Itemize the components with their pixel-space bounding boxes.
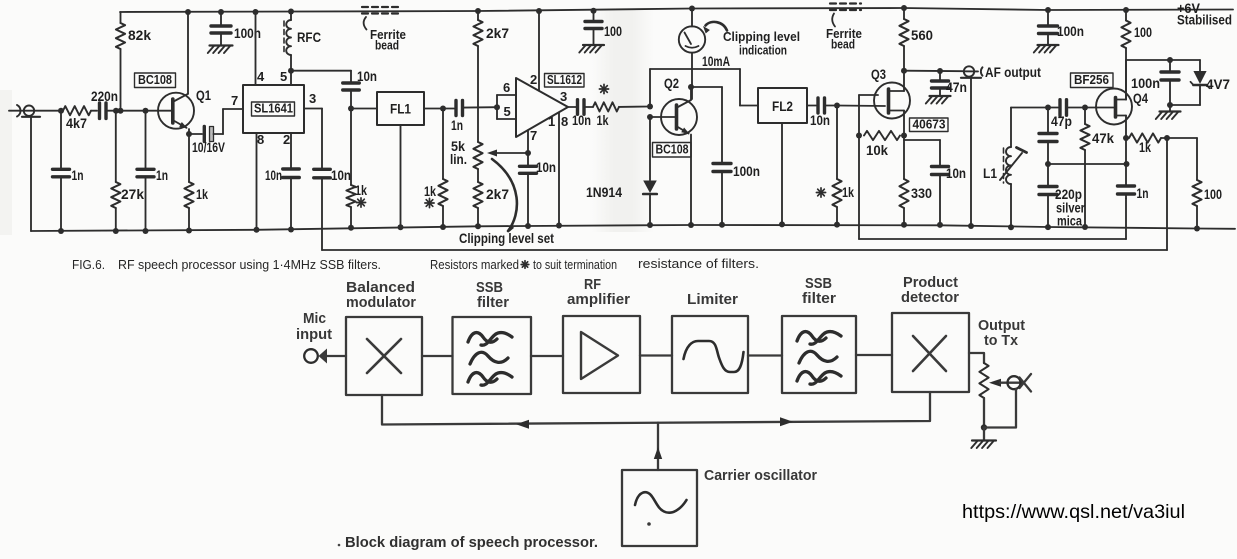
svg-text:47n: 47n bbox=[946, 80, 967, 95]
ground for 47n bbox=[926, 96, 951, 104]
svg-text:7: 7 bbox=[231, 93, 238, 108]
wire +6V top supply rail bbox=[120, 8, 1233, 12]
svg-text:100n: 100n bbox=[1131, 76, 1160, 91]
resistor 2k7 (clipping divider upper) bbox=[473, 8, 509, 142]
label BF256 for Q4 bbox=[1071, 73, 1114, 88]
svg-text:82k: 82k bbox=[128, 28, 151, 43]
svg-text:FL1: FL1 bbox=[390, 101, 411, 117]
resistor 1k (FL1 output termination, marked *) bbox=[424, 109, 448, 231]
svg-text:1k: 1k bbox=[1139, 140, 1151, 155]
wire ground bottom rail bbox=[31, 225, 1235, 231]
node FL1 input bbox=[348, 106, 377, 112]
svg-text:Limiter: Limiter bbox=[687, 292, 738, 308]
resistor 1k (FL1 input termination, marked *) bbox=[346, 109, 367, 231]
resistor 1k (Q4 source) bbox=[1123, 133, 1170, 155]
wire mic to balanced modulator bbox=[0, 0, 1, 1]
capacitor 100 (supply decoupling middle) bbox=[585, 8, 622, 45]
svg-text:10n: 10n bbox=[946, 166, 966, 181]
capacitor 1n (input shunt) bbox=[53, 108, 84, 234]
filter FL2 (SSB filter 2) bbox=[740, 88, 807, 227]
svg-text:47k: 47k bbox=[1092, 131, 1114, 146]
svg-text:SSB: SSB bbox=[805, 276, 832, 292]
op-amp U1 SL1641 bbox=[243, 85, 304, 133]
pin 3 of SL1641 bbox=[304, 91, 322, 169]
wire block chain bbox=[422, 355, 892, 356]
resistor 100 (Q4 drain supply dropper) bbox=[1121, 7, 1152, 60]
svg-text:Product: Product bbox=[903, 275, 958, 291]
capacitor 1n (Q4 source bypass) bbox=[1118, 138, 1149, 201]
svg-text:detector: detector bbox=[901, 290, 959, 306]
svg-text:10n: 10n bbox=[357, 69, 377, 84]
zener diode 4V7 bbox=[1170, 60, 1230, 105]
capacitor 100n (supply decoupling left) bbox=[211, 9, 261, 45]
svg-text:100n: 100n bbox=[1057, 24, 1084, 39]
svg-text:modulator: modulator bbox=[346, 295, 416, 311]
capacitor (divider upper at L1 tap) bbox=[1039, 108, 1057, 168]
pin 8 of SL1612 bbox=[556, 112, 568, 228]
potentiometer 5k lin (clipping level) bbox=[450, 139, 528, 169]
capacitor 10n (FL2 output coupling) bbox=[807, 98, 837, 128]
resistor 47k (Q4 gate leak) bbox=[1080, 108, 1114, 231]
capacitor 47n (AF output filter) bbox=[932, 71, 968, 96]
resistor 100 (output load) bbox=[1167, 138, 1222, 232]
caption FIG.6 bbox=[72, 257, 381, 272]
capacitor 100n (Q2 collector reservoir) bbox=[691, 87, 760, 228]
caption resistance of filters bbox=[638, 256, 759, 271]
resistor 1k (Q1 emitter) bbox=[184, 131, 208, 234]
callout arrow clipping level set bbox=[459, 159, 554, 246]
resistor 2k7 (clipping divider lower) bbox=[473, 169, 509, 229]
ground for 100n decoupling bbox=[208, 46, 233, 54]
svg-text:8: 8 bbox=[561, 114, 568, 129]
svg-text:2: 2 bbox=[530, 72, 537, 87]
svg-text:5: 5 bbox=[280, 69, 287, 84]
capacitor 100n (supply decoupling right) bbox=[1039, 7, 1085, 45]
filter FL1 (SSB filter 1) bbox=[377, 92, 424, 230]
caption resistors marked note bbox=[430, 257, 617, 272]
capacitor 10n (SL1641 pin2) bbox=[265, 168, 299, 233]
svg-text:1n: 1n bbox=[72, 168, 84, 183]
block balanced modulator bbox=[346, 280, 422, 395]
caption block diagram bbox=[338, 534, 598, 551]
wire Q3 gate2 feedback column bbox=[856, 95, 862, 239]
capacitor 10n (SL1641 pin5 to FL1) bbox=[343, 69, 377, 109]
resistor 1k (FL2 termination, marked *) bbox=[816, 106, 854, 228]
svg-text:10/16V: 10/16V bbox=[192, 140, 225, 155]
AF output jack J2 bbox=[961, 65, 1041, 229]
capacitor 10uF/16V electrolytic (Q1 emitter coupling) bbox=[189, 109, 243, 155]
svg-text:amplifier: amplifier bbox=[567, 292, 630, 308]
svg-text:10n: 10n bbox=[572, 113, 591, 128]
pin 5 of SL1641 bbox=[280, 55, 294, 85]
svg-text:SL1641: SL1641 bbox=[254, 102, 293, 116]
svg-text:10n: 10n bbox=[810, 113, 830, 128]
svg-text:1k: 1k bbox=[597, 113, 609, 128]
node FL1 output bbox=[424, 106, 454, 112]
pin 5 of SL1612 bbox=[494, 95, 516, 119]
wire Q4 drain supply node bbox=[1126, 57, 1200, 100]
svg-text:Q3: Q3 bbox=[871, 66, 886, 82]
svg-text:2: 2 bbox=[283, 132, 290, 147]
svg-text:FIG.6.: FIG.6. bbox=[72, 257, 105, 272]
resistor 560 (Q3 drain load) bbox=[899, 5, 933, 74]
block RF amplifier bbox=[563, 277, 640, 393]
svg-text:40673: 40673 bbox=[913, 118, 946, 132]
inductor RFC (supply choke) bbox=[284, 9, 321, 56]
block carrier oscillator bbox=[622, 423, 817, 546]
svg-text:FL2: FL2 bbox=[772, 98, 793, 114]
svg-text:100n: 100n bbox=[234, 26, 261, 41]
svg-text:1k: 1k bbox=[355, 183, 367, 198]
svg-text:bead: bead bbox=[375, 38, 399, 53]
svg-text:4V7: 4V7 bbox=[1206, 77, 1230, 92]
ground for 100n right bbox=[1034, 45, 1059, 53]
svg-text:5: 5 bbox=[504, 104, 511, 119]
svg-text:3: 3 bbox=[309, 91, 316, 106]
wire pin5 node to filter input bbox=[291, 70, 351, 72]
svg-text:10n: 10n bbox=[331, 168, 351, 183]
transistor Q1 BC108 (mic preamp) bbox=[146, 9, 211, 134]
capacitor 1n (coupling to SL1612) bbox=[451, 101, 497, 134]
svg-text:1n: 1n bbox=[1137, 186, 1149, 201]
svg-text:filter: filter bbox=[802, 291, 836, 307]
wire Q3 drain to AF output bbox=[904, 68, 964, 74]
supply +6V Stabilised label bbox=[1177, 1, 1232, 28]
ground for 100 decoupling bbox=[579, 45, 604, 53]
pin 2 of SL1641 bbox=[283, 132, 291, 169]
svg-text:100: 100 bbox=[1134, 25, 1152, 40]
svg-text:4k7: 4k7 bbox=[66, 116, 87, 131]
svg-text:Q4: Q4 bbox=[1133, 90, 1148, 106]
svg-text:27k: 27k bbox=[121, 187, 144, 202]
svg-text:Q1: Q1 bbox=[196, 87, 211, 103]
svg-text:BC108: BC108 bbox=[138, 73, 172, 87]
node Q1 base bias junction bbox=[113, 108, 146, 114]
svg-text:2k7: 2k7 bbox=[486, 187, 509, 202]
svg-text:4: 4 bbox=[257, 69, 265, 84]
node FL2 output bbox=[834, 103, 885, 109]
label 40673 for Q3 bbox=[910, 118, 949, 132]
svg-text:3: 3 bbox=[560, 89, 567, 104]
svg-text:1n: 1n bbox=[156, 168, 168, 183]
wire divider tap to Q4 source column bbox=[1048, 161, 1130, 167]
ground for zener node bbox=[1156, 112, 1181, 120]
svg-text:Block diagram of speech proces: Block diagram of speech processor. bbox=[345, 534, 598, 551]
capacitor 100n (zener bypass) bbox=[1131, 60, 1179, 111]
block SSB filter 1 bbox=[453, 280, 532, 394]
pin 4 of SL1641 bbox=[253, 9, 266, 85]
svg-text:1k: 1k bbox=[424, 184, 436, 199]
svg-text:filter: filter bbox=[477, 295, 509, 311]
svg-text:100: 100 bbox=[1204, 187, 1222, 202]
pin 3 of SL1612 bbox=[560, 89, 567, 104]
transistor Q3 40673 (dual-gate MOSFET) bbox=[859, 66, 910, 136]
svg-text:Stabilised: Stabilised bbox=[1177, 13, 1232, 28]
capacitor 47p (Q4 gate coupling) bbox=[1045, 100, 1097, 129]
svg-text:Balanced: Balanced bbox=[346, 280, 415, 296]
resistor 27k (bias lower) bbox=[111, 111, 144, 234]
svg-text:Carrier oscillator: Carrier oscillator bbox=[704, 468, 817, 484]
svg-text:BC108: BC108 bbox=[656, 143, 689, 157]
svg-text:RFC: RFC bbox=[297, 30, 321, 45]
ferrite bead (right supply lead) bbox=[826, 4, 862, 52]
svg-text:mica: mica bbox=[1057, 214, 1082, 229]
mic input jack bbox=[296, 311, 346, 364]
svg-text:1: 1 bbox=[548, 114, 555, 129]
transistor Q4 BF256 (JFET oscillator) bbox=[1096, 60, 1148, 138]
pin 7 of SL1641 bbox=[231, 93, 238, 108]
svg-text:https://www.qsl.net/va3iul: https://www.qsl.net/va3iul bbox=[962, 501, 1185, 523]
callout arrow clipping level indication bbox=[703, 22, 800, 58]
svg-text:RF: RF bbox=[584, 277, 601, 293]
svg-text:AF output: AF output bbox=[985, 65, 1041, 80]
svg-text:Mic: Mic bbox=[303, 311, 326, 327]
svg-text:8: 8 bbox=[257, 132, 264, 147]
svg-text:2k7: 2k7 bbox=[486, 26, 509, 41]
ferrite bead (left supply lead) bbox=[362, 7, 406, 53]
svg-text:1k: 1k bbox=[196, 187, 208, 202]
pin 1 of SL1612 bbox=[548, 114, 555, 129]
capacitor 10n (SL1612 output coupling) bbox=[568, 100, 593, 128]
resistor 82k (bias upper) bbox=[116, 12, 152, 111]
label BC108 for Q2 bbox=[653, 143, 692, 158]
block SSB filter 2 bbox=[782, 276, 856, 393]
pin 8 of SL1641 bbox=[254, 132, 265, 233]
pin 2 of SL1612 bbox=[530, 8, 542, 91]
capacitor 220n (coupling) bbox=[91, 89, 118, 118]
capacitor 10n (Q3 source bypass) bbox=[904, 140, 966, 228]
block limiter bbox=[672, 292, 748, 393]
svg-text:100n: 100n bbox=[733, 164, 760, 179]
svg-text:7: 7 bbox=[530, 128, 537, 143]
svg-text:10n: 10n bbox=[265, 168, 282, 183]
svg-text:47p: 47p bbox=[1051, 114, 1072, 129]
svg-text:indication: indication bbox=[739, 43, 787, 58]
svg-text:resistance of filters.: resistance of filters. bbox=[638, 256, 759, 271]
resistor 4k7 (series input) bbox=[63, 106, 91, 131]
meter M1 10mA (clipping level indication) bbox=[679, 6, 730, 100]
transistor Q2 BC108 (clipping amplifier) bbox=[647, 75, 697, 228]
pin 7 of SL1612 bbox=[525, 128, 537, 156]
svg-text:10k: 10k bbox=[866, 143, 888, 158]
svg-text:1k: 1k bbox=[842, 185, 854, 200]
svg-text:1n: 1n bbox=[451, 118, 463, 133]
resistor 1k (SL1612 output termination, marked *) bbox=[593, 84, 650, 128]
svg-text:input: input bbox=[296, 327, 332, 343]
diode D1 symbol (base clamp) bbox=[643, 117, 657, 228]
inductor L1 (tuned, adjustable) bbox=[983, 108, 1048, 231]
svg-text:RF speech processor using 1·4M: RF speech processor using 1·4MHz SSB fil… bbox=[118, 257, 381, 272]
output attenuator and jack (Output to Tx) bbox=[969, 318, 1031, 431]
svg-text:bead: bead bbox=[831, 37, 855, 52]
svg-text:330: 330 bbox=[911, 186, 932, 201]
capacitor 10n (SL1641 pin3 coupling to bus) bbox=[314, 168, 351, 250]
wire bus from SL1641 pin3 to Q4 source network bbox=[322, 138, 1167, 250]
input jack J1 (mic input to processor) bbox=[9, 105, 61, 231]
svg-text:10n: 10n bbox=[536, 160, 556, 175]
svg-text:lin.: lin. bbox=[450, 152, 467, 167]
svg-text:Clipping level set: Clipping level set bbox=[459, 231, 554, 246]
wire bus Q3 feedback to Q4 source 1n bbox=[859, 199, 1126, 240]
svg-text:560: 560 bbox=[911, 28, 933, 43]
resistor 10k (Q3 gate2 bias) bbox=[864, 131, 907, 158]
svg-text:to suit termination: to suit termination bbox=[533, 257, 617, 272]
svg-text:10mA: 10mA bbox=[702, 54, 730, 69]
capacitor 220p silver mica (divider lower) bbox=[1039, 164, 1086, 230]
wire Q2 base-bias to FL2 feed bbox=[650, 69, 740, 107]
svg-text:1N914: 1N914 bbox=[586, 185, 622, 200]
svg-text:Resistors marked: Resistors marked bbox=[430, 257, 519, 272]
svg-text:100: 100 bbox=[604, 24, 622, 39]
ground for output jack bbox=[971, 428, 996, 449]
resistor 330 (Q3 source) bbox=[899, 136, 932, 228]
svg-text:to Tx: to Tx bbox=[984, 333, 1018, 349]
svg-text:Q2: Q2 bbox=[664, 75, 679, 91]
svg-text:220n: 220n bbox=[91, 89, 118, 104]
diode D1 1N914 (Q2 base clamp) bbox=[586, 185, 622, 200]
label BC108 for Q1 bbox=[135, 73, 176, 88]
svg-text:SSB: SSB bbox=[476, 280, 503, 296]
watermark URL text bbox=[962, 501, 1185, 523]
capacitor 10n (SL1612 pin7 decoupling) bbox=[520, 153, 557, 229]
svg-text:L1: L1 bbox=[983, 166, 997, 181]
svg-text:SL1612: SL1612 bbox=[547, 73, 582, 87]
svg-text:BF256: BF256 bbox=[1074, 73, 1109, 87]
wire carrier distribution bus bbox=[382, 392, 930, 429]
svg-text:6: 6 bbox=[503, 80, 510, 95]
block product detector bbox=[892, 275, 969, 392]
op-amp U2 SL1612 (limiter amplifier) bbox=[516, 73, 584, 137]
pin 6 of SL1612 bbox=[497, 80, 516, 95]
capacitor 1n (base shunt) bbox=[137, 108, 168, 234]
svg-text:Output: Output bbox=[978, 318, 1025, 334]
